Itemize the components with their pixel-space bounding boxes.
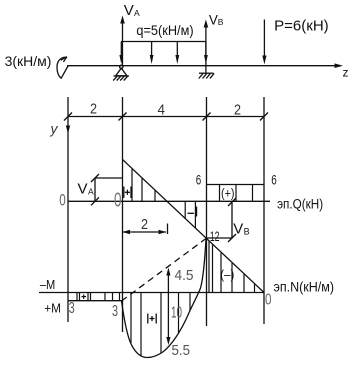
svg-text:q=5(кН/м): q=5(кН/м) (136, 23, 193, 38)
parabola hatch (131, 293, 190, 357)
svg-text:+M: +M (44, 300, 61, 315)
distributed load q top line (121, 41, 206, 43)
Q sloping line from A top to P at N axis (123, 160, 265, 293)
dim slash at x=122.5 (119, 113, 127, 121)
N triangle hatch (209, 242, 255, 293)
plus label in Q triangle (124, 187, 131, 199)
V_B dimension bracket (207, 198, 237, 242)
plus label in parabola (148, 314, 156, 324)
q arrow 1 (119, 42, 123, 65)
svg-text:(–): (–) (220, 267, 234, 282)
dimension line (68, 116, 264, 118)
svg-text:V: V (209, 12, 218, 27)
+M rectangle hatch (77, 293, 120, 301)
svg-text:0: 0 (265, 292, 272, 309)
reaction V_A arrow (120, 16, 125, 66)
svg-text:B: B (244, 227, 250, 237)
small plus in +M rectangle (82, 294, 87, 298)
svg-text:4: 4 (158, 102, 166, 119)
svg-text:2: 2 (141, 216, 148, 233)
moment parabola (122, 239, 207, 358)
svg-text:3: 3 (69, 300, 75, 317)
Q zero axis (68, 200, 270, 202)
svg-text:эп.Q(кН): эп.Q(кН) (277, 196, 323, 211)
svg-text:2: 2 (234, 102, 241, 119)
svg-text:0: 0 (114, 190, 122, 212)
dashed reference line (122, 239, 207, 302)
svg-text:2: 2 (90, 101, 97, 118)
svg-text:y: y (50, 121, 59, 137)
svg-text:V: V (124, 2, 134, 19)
svg-text:эп.N(кН/м): эп.N(кН/м) (274, 280, 335, 295)
svg-text:V: V (78, 180, 88, 197)
moment 3(kN/m) curved arrow at left end (57, 57, 68, 78)
svg-text:A: A (88, 187, 94, 197)
pinned support A (113, 65, 129, 80)
svg-text:–M: –M (40, 277, 55, 292)
svg-text:5.5: 5.5 (172, 342, 191, 359)
svg-text:z: z (343, 66, 349, 80)
svg-text:6: 6 (196, 173, 202, 188)
N zero axis (39, 292, 264, 294)
y axis down arrowhead (66, 126, 70, 134)
svg-text:4.5: 4.5 (175, 267, 194, 284)
Q rectangle top edge (207, 184, 265, 186)
reaction V_B arrow (204, 20, 209, 66)
svg-text:A: A (134, 8, 140, 18)
svg-text:3: 3 (112, 303, 118, 320)
q arrow 3 (175, 42, 179, 65)
svg-text:P=6(кН): P=6(кН) (274, 18, 329, 35)
load P arrow (262, 20, 266, 65)
q arrow 2 (150, 42, 154, 65)
svg-text:6: 6 (271, 173, 277, 188)
10 measuring arrow (166, 268, 170, 346)
grid line at x=206.5 (support B) (206, 97, 208, 326)
svg-text:0: 0 (59, 192, 66, 210)
Q right small triangle hatch (185, 202, 195, 229)
grid line at x=264 (load P) (263, 97, 265, 324)
dim slash at x=264 (260, 113, 268, 121)
svg-text:3(кН/м): 3(кН/м) (5, 53, 52, 69)
beam line with z axis arrow (67, 63, 343, 68)
Q rectangle hatch (220, 185, 253, 202)
minus label in Q small triangle (188, 207, 197, 217)
grid line at x=68 (67, 97, 69, 322)
svg-text:12: 12 (210, 228, 220, 244)
2 dimension under Q (123, 224, 168, 235)
grid line at x=122.5 (support A) (122, 97, 124, 332)
Q left triangle hatch (132, 169, 155, 201)
V_A dimension box (91, 174, 122, 205)
q arrow 4 (204, 42, 208, 65)
dim slash at x=206.5 (203, 113, 211, 121)
svg-text:(+): (+) (221, 186, 235, 201)
dim slash at x=68 (64, 113, 72, 121)
+M rectangle bottom edge (68, 300, 123, 302)
svg-text:10: 10 (171, 305, 182, 322)
svg-text:B: B (218, 17, 224, 27)
roller support B (199, 66, 214, 79)
svg-text:V: V (233, 221, 243, 238)
